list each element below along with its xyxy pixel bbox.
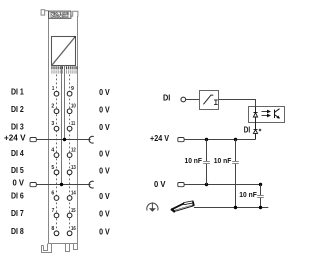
labels 0V right column <box>99 88 110 237</box>
comb band 2 <box>52 70 77 73</box>
label plate 750-1415 <box>49 11 71 19</box>
svg-text:DI 2: DI 2 <box>11 105 24 114</box>
svg-text:1: 1 <box>52 86 54 92</box>
svg-text:DI 7: DI 7 <box>11 209 24 218</box>
svg-text:0 V: 0 V <box>99 149 110 158</box>
svg-text:0 V: 0 V <box>99 88 110 97</box>
contact column dashed right <box>69 75 71 234</box>
node dot FE/C3 <box>259 206 262 209</box>
capacitor C3 10nF <box>239 185 264 208</box>
internal bus line A to 0V <box>61 66 63 185</box>
svg-text:24VDC3ms: 24VDC3ms <box>51 14 68 18</box>
opto LED D1 <box>253 113 257 118</box>
light arrows <box>262 110 271 117</box>
svg-text:12: 12 <box>71 148 76 154</box>
+24V connector symbol right <box>178 138 184 142</box>
functional earth symbol <box>147 202 158 210</box>
svg-text:2: 2 <box>51 104 54 110</box>
svg-text:DI 5: DI 5 <box>11 166 24 175</box>
node box corner dot <box>74 36 76 38</box>
svg-text:4: 4 <box>51 148 54 154</box>
node +24V internal junction <box>63 138 66 141</box>
node dot FE/C2 <box>234 206 237 209</box>
capacitor C1 10nF <box>185 140 210 185</box>
filter box U1 <box>200 91 219 110</box>
svg-text:14: 14 <box>71 191 76 197</box>
svg-text:10 nF: 10 nF <box>239 190 257 199</box>
svg-text:DI 4: DI 4 <box>11 149 24 158</box>
svg-text:7: 7 <box>52 208 55 214</box>
svg-text:+24 V: +24 V <box>150 134 169 143</box>
comb band 1 <box>52 66 77 69</box>
optocoupler box U2 <box>249 107 285 123</box>
svg-text:3: 3 <box>51 121 54 127</box>
svg-text:10 nF: 10 nF <box>214 156 232 165</box>
svg-text:DI 6: DI 6 <box>11 192 24 201</box>
svg-text:+24 V: +24 V <box>4 134 26 143</box>
wire filter to optocoupler <box>219 100 256 107</box>
svg-text:DI 1: DI 1 <box>11 87 24 96</box>
contact column dashed left <box>56 75 58 234</box>
0V feed line left <box>30 181 93 188</box>
foot tab right <box>74 244 78 250</box>
svg-text:DI: DI <box>163 94 170 103</box>
svg-text:10: 10 <box>71 104 76 110</box>
wire terminal to filter <box>186 99 200 101</box>
svg-text:6: 6 <box>51 191 54 197</box>
svg-text:0 V: 0 V <box>99 167 110 176</box>
svg-text:DI: DI <box>244 126 250 135</box>
FE rail <box>194 207 268 209</box>
node dot +24V/C2 <box>234 138 237 141</box>
capacitor C2 10nF <box>214 140 239 208</box>
wire status LED to +24V rail <box>255 133 257 139</box>
DIN rail icon <box>171 201 194 212</box>
svg-text:0 V: 0 V <box>99 210 110 219</box>
foot tab middle <box>66 244 70 252</box>
internal bus line B to +24V <box>64 66 66 140</box>
svg-text:9: 9 <box>71 86 74 92</box>
top-right latch <box>71 11 78 16</box>
terminal circles left column pins 1-8 <box>54 91 59 235</box>
svg-text:5: 5 <box>51 165 54 171</box>
svg-text:0 V: 0 V <box>99 105 110 114</box>
svg-text:11: 11 <box>71 121 75 127</box>
pin numbers 9-16 <box>71 86 76 232</box>
svg-text:0 V: 0 V <box>13 179 25 188</box>
svg-text:0 V: 0 V <box>99 123 110 132</box>
svg-text:8: 8 <box>51 226 54 232</box>
+24V feed line left <box>30 136 93 143</box>
channel labels DI1-DI8 <box>11 87 24 236</box>
node 0V internal junction <box>60 183 63 186</box>
pin numbers 1-8 <box>51 86 54 232</box>
0V connector symbol right <box>178 183 184 187</box>
mounting hook top-left <box>41 10 49 15</box>
module outline <box>49 11 78 244</box>
svg-text:DI 3: DI 3 <box>11 122 24 131</box>
svg-text:0 V: 0 V <box>154 180 166 189</box>
+24V rail right <box>184 139 255 141</box>
svg-text:16: 16 <box>71 226 76 232</box>
status LED D2 <box>253 130 257 134</box>
node dot 0V/C3 <box>259 183 262 186</box>
0V rail right <box>184 184 260 186</box>
opto LED wire through <box>255 107 257 130</box>
node dot 0V/C1 <box>205 183 208 186</box>
svg-text:DI 8: DI 8 <box>11 227 24 236</box>
svg-text:10 nF: 10 nF <box>185 156 203 165</box>
svg-text:0 V: 0 V <box>99 192 110 201</box>
phototransistor Q1 <box>275 109 280 119</box>
svg-text:13: 13 <box>71 165 76 171</box>
input terminal circle <box>181 97 186 102</box>
node dot +24V/C1 <box>205 138 208 141</box>
asterisk <box>259 129 261 132</box>
electronics box U <box>52 37 76 66</box>
svg-text:15: 15 <box>71 208 76 214</box>
foot hook bottom-left <box>42 244 52 253</box>
terminal circles right column pins 9-16 <box>67 91 72 235</box>
svg-text:0 V: 0 V <box>99 228 110 237</box>
